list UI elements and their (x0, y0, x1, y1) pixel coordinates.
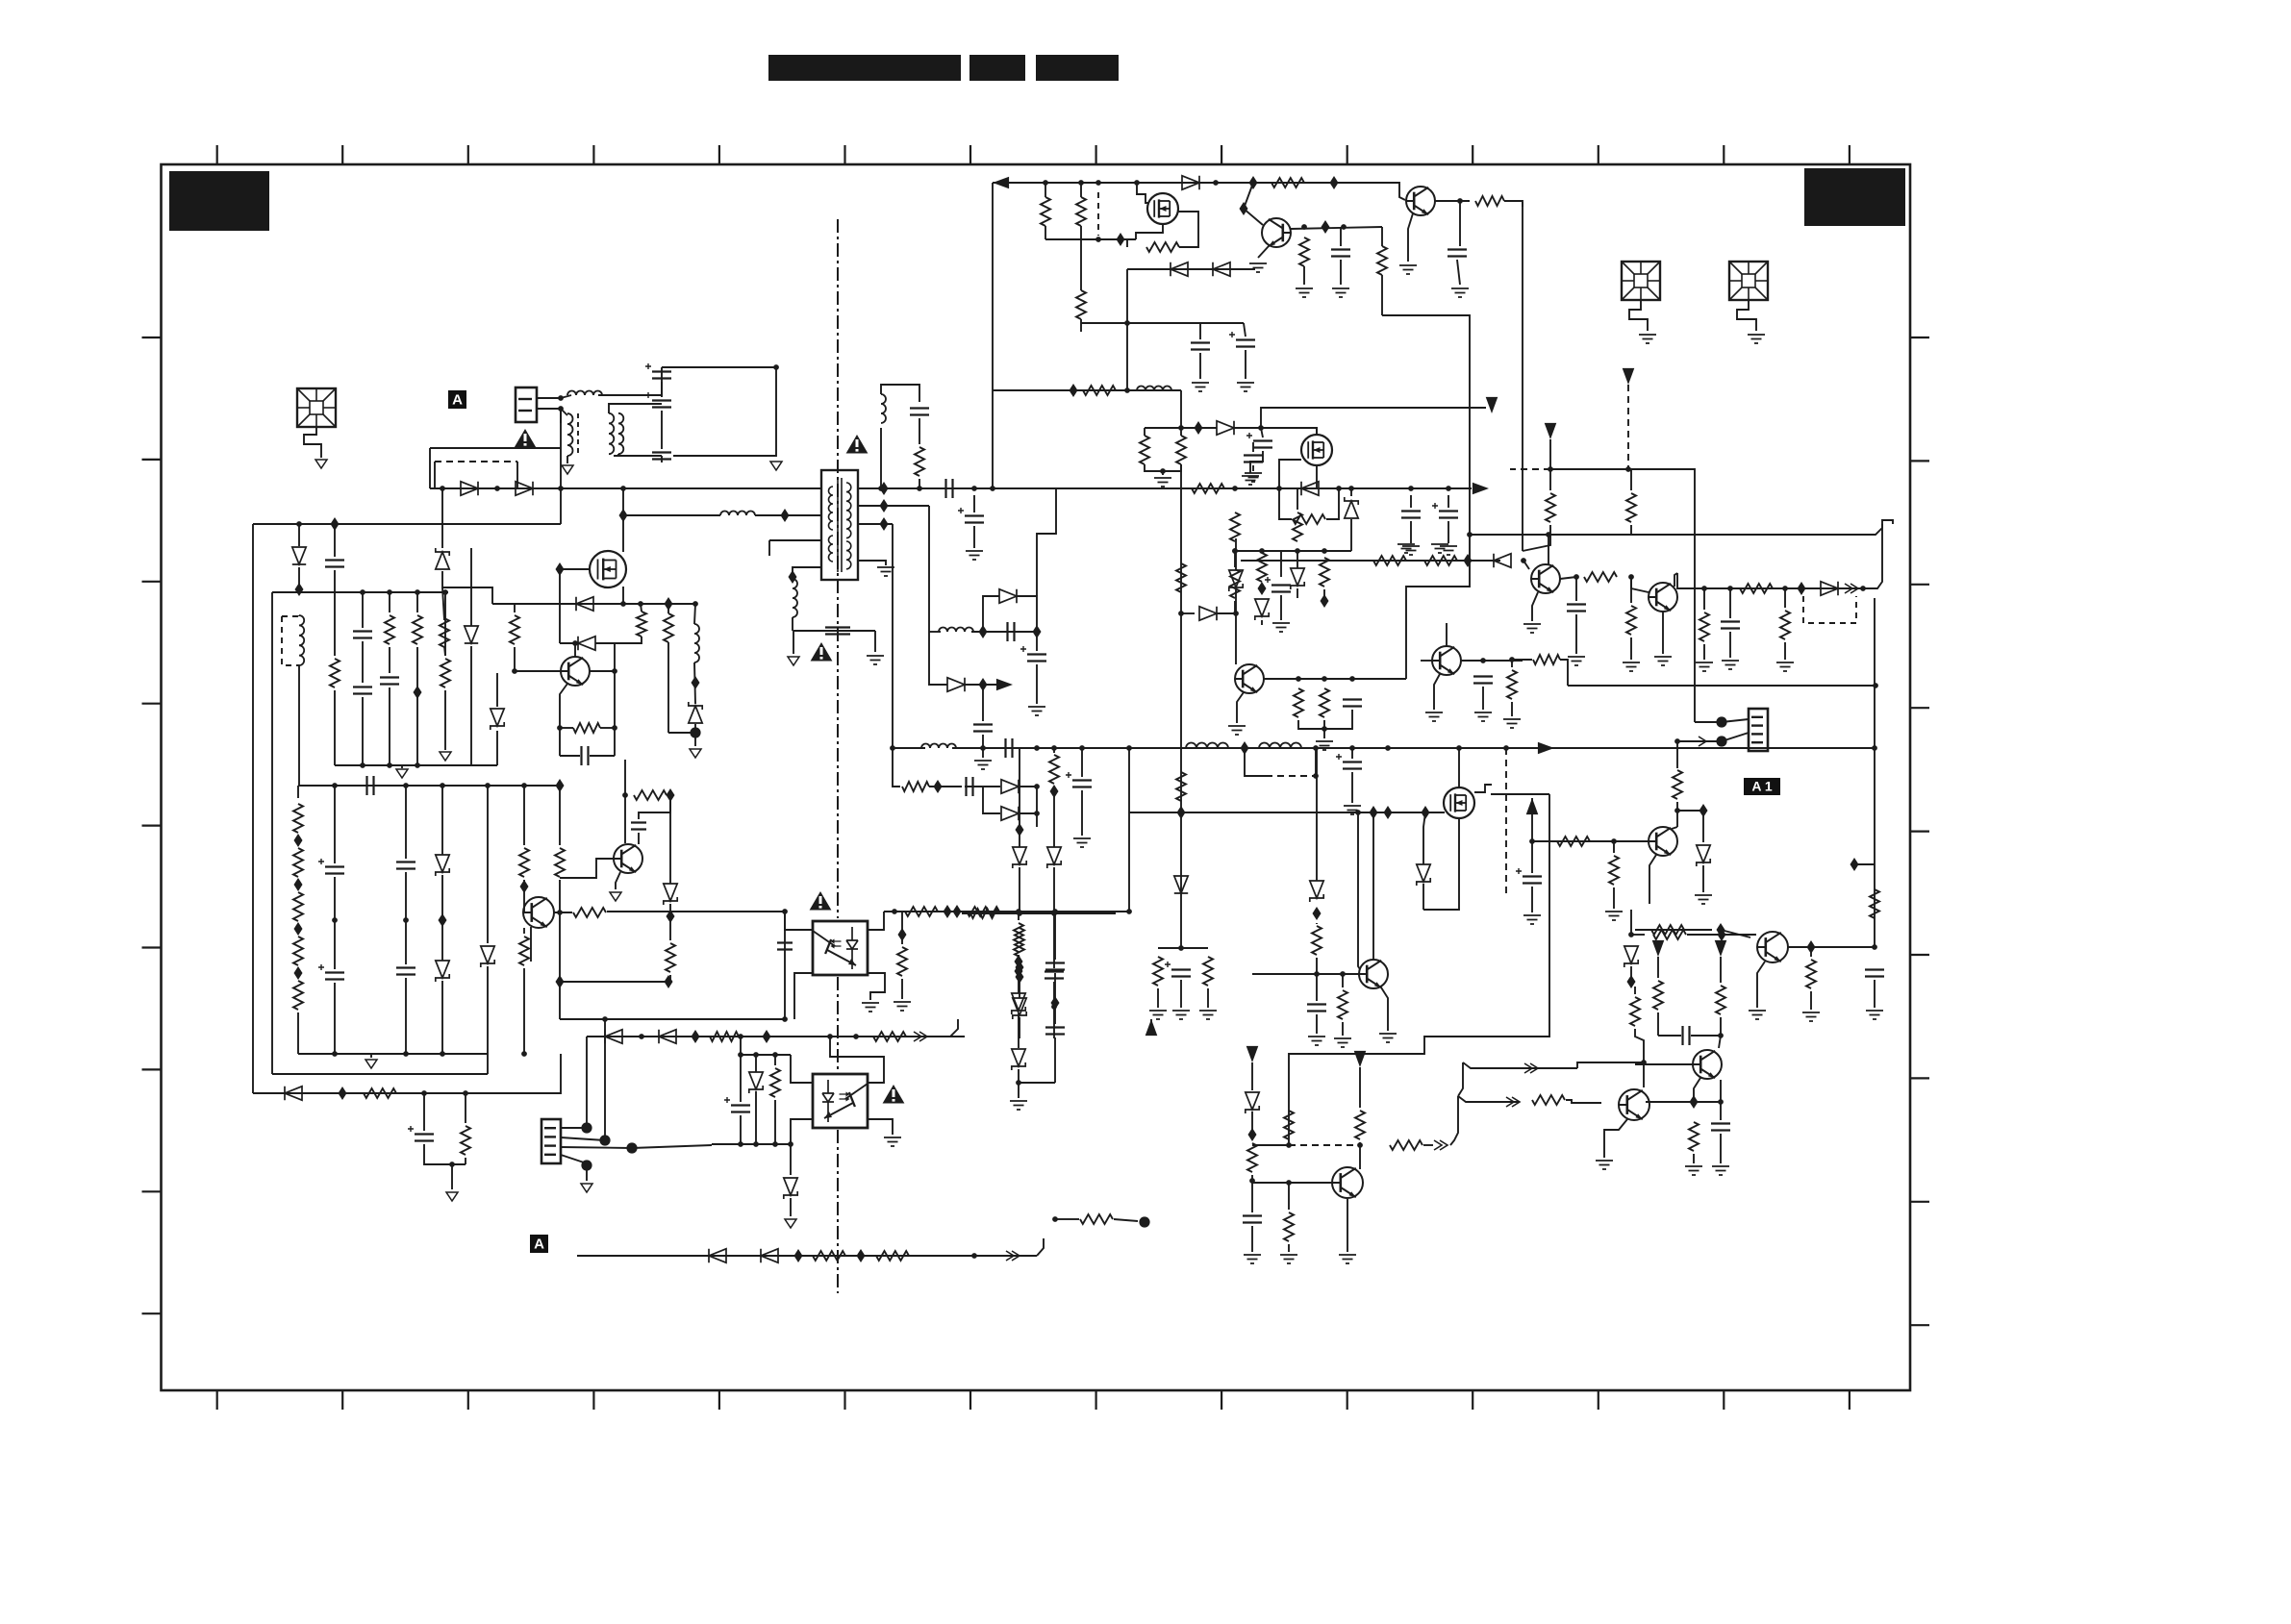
junction (1296, 676, 1301, 682)
zener ZD1 (1345, 497, 1358, 518)
junction (692, 601, 698, 607)
capacitor (1343, 700, 1362, 707)
junction (782, 909, 788, 914)
center vertical bus upper (1180, 390, 1182, 436)
zener (436, 855, 449, 876)
resistor (1424, 556, 1457, 565)
junction diamond (979, 625, 988, 638)
junction (449, 1162, 455, 1167)
standby transformer winding (299, 615, 304, 665)
wire snubber loop (1177, 212, 1198, 247)
bridge diode D1 (461, 482, 478, 495)
wire (1635, 1029, 1644, 1062)
wire (1235, 538, 1237, 570)
wire (559, 880, 561, 912)
resistor R12 (1076, 197, 1086, 226)
junction (387, 762, 392, 768)
ground (1308, 1037, 1325, 1045)
drawing frame border (162, 164, 1911, 1390)
wire (1288, 1183, 1290, 1210)
wire (1199, 353, 1201, 379)
ground (1695, 895, 1712, 904)
wire J1 pin2 (537, 408, 561, 410)
warning triangle at optocoupler 2 (883, 1085, 905, 1104)
resistor (293, 892, 303, 921)
capacitor (1683, 1026, 1690, 1045)
wire loop down (1126, 269, 1128, 323)
wire to Q10 (1358, 812, 1360, 969)
diode (1001, 780, 1019, 793)
ground (1280, 1255, 1297, 1263)
electrolytic polarity + (1066, 772, 1071, 778)
wire (982, 685, 984, 721)
wire (1720, 1134, 1722, 1163)
junction (620, 601, 626, 607)
ground (1451, 288, 1469, 297)
resistor (1203, 957, 1213, 986)
resistor (1015, 928, 1024, 957)
wire pin3 to opto ladder (632, 1145, 712, 1148)
wire link (1491, 793, 1549, 795)
drive rail y=1078 (587, 1036, 965, 1037)
wire Q16 base (515, 670, 562, 672)
resistor (915, 447, 924, 476)
wire (1677, 740, 1718, 742)
electrolytic polarity + (318, 964, 324, 970)
junction (602, 1016, 608, 1022)
wire Q10 emitter (1381, 987, 1388, 1031)
wire (1350, 488, 1352, 496)
X-capacitor C1 (652, 372, 671, 379)
wire (1340, 260, 1342, 285)
wire (389, 592, 390, 612)
capacitor (910, 409, 929, 415)
junction (878, 486, 884, 491)
ground Q12 (1596, 1161, 1613, 1169)
ladder bottom rail (335, 764, 497, 766)
resistor (364, 1088, 396, 1098)
resistor R17 (1176, 436, 1186, 464)
wire (973, 526, 975, 548)
wire (1702, 811, 1704, 842)
junction diamond (1807, 940, 1816, 954)
resistor (1532, 1095, 1565, 1105)
wire (1784, 642, 1786, 660)
warning triangle at Y-capacitor (811, 642, 833, 662)
bridge diode D2 (516, 482, 533, 495)
junction diamond (1321, 594, 1329, 608)
gate diode (578, 637, 595, 650)
bridge output riser (560, 488, 562, 524)
wire (1482, 687, 1484, 710)
ground (1623, 662, 1640, 671)
resistor (1390, 1140, 1422, 1150)
chassis ground Y-cap left (788, 657, 799, 665)
ground up b (1431, 544, 1448, 553)
wire (334, 920, 336, 969)
junction diamond (1322, 220, 1330, 234)
resistor (813, 1251, 845, 1261)
ground Q6 (1654, 657, 1672, 665)
zener (1310, 881, 1323, 902)
electrolytic (1253, 441, 1272, 448)
wire (1471, 1101, 1520, 1103)
wire (1459, 201, 1461, 246)
wire (334, 570, 336, 592)
resistor (1230, 512, 1240, 541)
wire (1676, 741, 1678, 768)
wire (1251, 1226, 1253, 1252)
wire to right bus elbow (1863, 532, 1882, 588)
inline flow arrow (1538, 742, 1554, 755)
electrolytic polarity + (1020, 646, 1026, 652)
resistor (1689, 1122, 1699, 1151)
wire (1316, 923, 1318, 924)
wire (1316, 974, 1318, 1001)
wire zener down (1350, 519, 1352, 551)
junction (1034, 745, 1040, 751)
wire tap3 (858, 523, 893, 525)
wire S1 to ground (304, 427, 321, 458)
wire (1280, 595, 1282, 620)
wire J1 pin1 (537, 397, 561, 399)
wire (334, 786, 336, 863)
wire to opto2 right pin (830, 1037, 884, 1083)
pin junction (581, 1160, 592, 1170)
stub (867, 1082, 869, 1084)
electrolytic (1439, 512, 1458, 518)
junction J1 pin2 (558, 406, 564, 412)
wire (590, 755, 615, 757)
wire loop vertical (614, 643, 616, 756)
junction (403, 783, 409, 788)
redacted corner block top-right (1804, 168, 1905, 226)
reference arrow down (1623, 368, 1635, 385)
wire L1 to X-capacitor (598, 367, 662, 395)
wire (901, 979, 903, 999)
junction (1521, 558, 1526, 563)
wire R16 R17 join (1145, 464, 1181, 471)
resistor (519, 937, 529, 965)
junction (360, 762, 365, 768)
junction (1408, 486, 1414, 491)
wire (1657, 1012, 1659, 1036)
junction diamond (1370, 806, 1378, 819)
wire (1784, 588, 1786, 608)
zener (1229, 570, 1243, 591)
wire (1691, 1035, 1721, 1037)
ground (1440, 546, 1457, 555)
resistor (1609, 856, 1619, 885)
wire transformer aux tap (769, 539, 821, 541)
bus elbow top (1882, 520, 1893, 532)
wire Q17 collector (554, 912, 572, 913)
resistor (1294, 688, 1303, 717)
wire (1019, 867, 1020, 913)
resistor R10 (1271, 178, 1304, 187)
diode (465, 626, 478, 643)
junction diamond (1015, 964, 1023, 978)
wire C1 to C2 (661, 382, 663, 397)
capacitor (396, 862, 415, 869)
capacitor (967, 777, 973, 796)
chassis ground J3 (581, 1184, 592, 1192)
wire Q10 base row (1252, 973, 1359, 975)
open arrow on wire (1699, 737, 1706, 746)
earth ground Y-cap right (867, 656, 884, 664)
junction (440, 1051, 445, 1057)
electrolytic (1072, 781, 1092, 787)
wire (1252, 1144, 1289, 1146)
wire (1613, 841, 1615, 853)
wire Y-cap right down (874, 631, 876, 652)
wire Q2 base feed (1244, 183, 1263, 225)
wire Q11 base (1252, 1182, 1332, 1184)
capacitor (325, 561, 344, 567)
lower ladder top rail (298, 785, 560, 787)
wire Q4 source (1316, 465, 1318, 488)
junction diamond (979, 678, 988, 691)
wire rail to Q3 base (1334, 183, 1405, 200)
junction (1336, 486, 1342, 491)
wire Q4 top (1316, 427, 1318, 435)
resistor (634, 790, 667, 800)
wire Q3 emitter down (1408, 213, 1413, 262)
wire (1261, 428, 1263, 437)
wire (514, 647, 516, 671)
junction (639, 1034, 644, 1039)
wire Q17 emitter path (530, 927, 532, 962)
wire (1019, 960, 1020, 998)
transistor Q13 (1757, 932, 1788, 962)
wire Q12 collector (1643, 1062, 1645, 1087)
diode (659, 1030, 676, 1043)
aux line y=424 (1261, 408, 1486, 428)
junction (1160, 468, 1166, 474)
transistor Q10 (1359, 960, 1388, 988)
junction (1124, 387, 1130, 393)
wire Q17 base (523, 897, 525, 912)
wire Q5 emitter (1532, 592, 1538, 621)
wire (1018, 1069, 1020, 1083)
line filter inductor L1 (567, 391, 602, 396)
zener (1013, 998, 1026, 1019)
junction (1314, 971, 1320, 977)
electrolytic (731, 1106, 750, 1112)
wire (1531, 887, 1533, 912)
junction (1727, 586, 1733, 591)
resistor (519, 848, 529, 877)
wire (1531, 798, 1533, 841)
wire (1181, 427, 1217, 429)
wire (1634, 987, 1636, 994)
wire (1081, 748, 1083, 777)
page link label A (448, 390, 466, 409)
junction (1872, 745, 1877, 751)
junction (1782, 586, 1788, 591)
common-mode choke winding b (618, 413, 623, 454)
wire (638, 833, 640, 844)
wire jumper top (430, 447, 561, 449)
resistor (1780, 611, 1790, 639)
ground opto2 (884, 1137, 901, 1146)
junction (1016, 909, 1021, 914)
ground Q2 (1249, 263, 1267, 272)
wire Q2 emitter (1258, 246, 1269, 258)
zener diode (436, 548, 449, 569)
transistor Q6 (1649, 583, 1677, 612)
wire (334, 592, 336, 656)
warning triangle at transformer (846, 435, 869, 454)
electrolytic (1236, 340, 1255, 347)
wire (919, 418, 920, 444)
wire L8 out (971, 631, 1037, 633)
ground Q11 (1339, 1255, 1356, 1263)
wire (560, 755, 580, 757)
wire to connector J2 (1550, 469, 1695, 722)
transistor Q18 (614, 844, 642, 873)
link rail y=1117 (272, 1073, 488, 1075)
junction (463, 1090, 468, 1096)
dashed link (1289, 1144, 1360, 1146)
resistor (902, 782, 929, 791)
wire (1703, 644, 1705, 660)
junction (1313, 745, 1319, 751)
junction (1249, 1178, 1255, 1184)
top feedback rail (993, 182, 1399, 184)
ground (1402, 546, 1420, 555)
resistor (1373, 556, 1406, 565)
wire (1019, 786, 1037, 787)
frame tick marks (216, 145, 218, 164)
zener (1624, 946, 1638, 967)
junction diamond (1718, 928, 1726, 941)
transistor Q2 (1262, 218, 1291, 247)
wire (694, 733, 696, 746)
zener diode (689, 702, 702, 723)
wire (755, 1091, 757, 1144)
junction (772, 1141, 778, 1147)
optocoupler U2 (813, 1074, 868, 1128)
wire Q12 emitter (1604, 1119, 1627, 1158)
junction diamond (556, 562, 565, 576)
wire (444, 690, 446, 750)
junction diamond (1015, 955, 1023, 968)
ground cluster (1316, 741, 1333, 750)
junction (990, 486, 995, 491)
capacitor (1473, 677, 1493, 684)
junction filter (773, 364, 779, 370)
electrolytic C10 polarity + (958, 508, 964, 513)
wire (1036, 632, 1038, 651)
zener (1012, 1049, 1025, 1070)
capacitor (380, 678, 399, 685)
wire (1423, 1144, 1433, 1146)
wire tap2 down (928, 506, 930, 632)
wire (451, 1164, 453, 1189)
wire (523, 786, 525, 845)
junction diamond (1313, 907, 1322, 920)
ground Q5 (1523, 624, 1541, 633)
junction diamond (619, 509, 628, 522)
junction (1232, 548, 1238, 554)
chevron in (1845, 584, 1858, 593)
zener (1246, 1092, 1259, 1113)
dashed reference drop (1505, 748, 1507, 894)
electrolytic polarity + (1432, 503, 1438, 509)
rising wire (1450, 1096, 1458, 1145)
redacted title text block 2 (969, 55, 1025, 81)
wire (444, 592, 446, 656)
wire (1252, 465, 1254, 471)
redacted corner block top-left (169, 171, 269, 231)
stub aux (768, 540, 770, 556)
wire (694, 604, 695, 624)
lower ladder bottom rail (298, 1053, 488, 1055)
isolation barrier dash-dot line 3 (837, 1130, 839, 1293)
bridge tap drop (441, 488, 443, 548)
line upper (1475, 1067, 1577, 1069)
junction (1529, 838, 1535, 844)
ground (1722, 661, 1739, 669)
junction (827, 1034, 833, 1039)
right rail y=556 (1470, 524, 1882, 535)
ground (1192, 383, 1209, 391)
junction (1301, 224, 1307, 230)
junction diamond (1177, 806, 1186, 819)
wire (1180, 980, 1182, 1008)
wire (694, 724, 696, 733)
wire Q9 drain (1458, 748, 1460, 787)
dashed wire (1097, 192, 1099, 236)
inductor L7 (1259, 743, 1301, 749)
primary series inductor L3 (720, 512, 755, 516)
wire (1613, 887, 1615, 909)
junction (622, 792, 628, 798)
wire (1019, 812, 1037, 814)
junction diamond (1330, 176, 1339, 189)
wire (740, 1115, 742, 1144)
link rail y=1060 (560, 1018, 785, 1020)
wire (1340, 227, 1342, 246)
wire choke top (609, 404, 662, 413)
wire Q19 base row (1550, 840, 1649, 842)
wire (1531, 841, 1533, 873)
electrolytic (415, 1135, 434, 1141)
junction (980, 745, 986, 751)
electrolytic polarity + (1165, 962, 1171, 967)
resistor (1230, 569, 1240, 598)
capacitor (582, 746, 589, 765)
zener (1697, 845, 1710, 866)
wire (298, 567, 300, 590)
capacitor (1045, 963, 1065, 970)
resistor (1699, 612, 1709, 641)
stub (401, 765, 403, 768)
ground S2 (1639, 335, 1656, 343)
dashed drop (1627, 385, 1629, 469)
junction (1348, 486, 1354, 491)
wire (1054, 1037, 1056, 1083)
junction (1124, 320, 1130, 326)
electrolytic polarity + (408, 1126, 414, 1132)
junction (1017, 911, 1022, 916)
ground (894, 1002, 911, 1011)
resistor R13 (1146, 242, 1179, 252)
capacitor (1045, 972, 1064, 979)
wire L4 down (792, 617, 793, 631)
wire (444, 646, 445, 656)
